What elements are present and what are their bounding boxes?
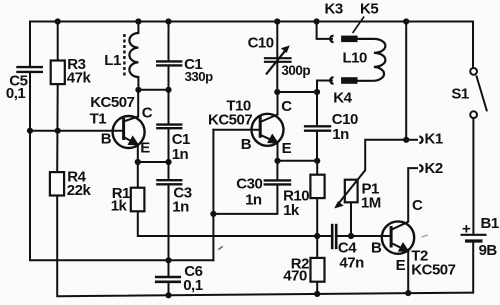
svg-text:E: E [140, 140, 150, 157]
wire T1 emitter down [137, 145, 139, 163]
svg-text:C30: C30 [236, 176, 262, 193]
wire L1 bottom lead [137, 77, 139, 90]
svg-text:0,1: 0,1 [6, 85, 26, 102]
wire K3 drop from top rail [317, 22, 332, 39]
socket K4 [330, 77, 333, 83]
inductor L1 [124, 33, 138, 77]
node T10 base junction [210, 211, 216, 217]
socket K1 [419, 137, 422, 143]
node C1 330p bottom [165, 87, 171, 93]
svg-text:9B: 9B [479, 242, 498, 259]
capacitor C10 1n [304, 126, 331, 130]
wire T1 base [30, 130, 124, 132]
scan speck right of T2 [422, 235, 428, 237]
wire S1 top lead [472, 22, 474, 68]
svg-text:K1: K1 [425, 131, 443, 148]
wire R1 top lead [137, 162, 139, 188]
wire K4 lead to C10 1n [317, 81, 332, 126]
wire L1 top lead [137, 22, 139, 34]
wire battery to bottom rail [472, 243, 474, 293]
resistor R4 [50, 172, 64, 195]
svg-text:1n: 1n [172, 146, 189, 163]
plug on K4 [341, 77, 357, 84]
svg-text:0,1: 0,1 [183, 277, 203, 294]
svg-text:C: C [281, 98, 292, 115]
svg-text:+: + [462, 220, 471, 237]
wire T1 collector [137, 90, 139, 117]
svg-text:1M: 1M [361, 194, 381, 211]
svg-text:C: C [412, 197, 423, 214]
wire C6 top lead [168, 260, 170, 275]
wire C1 1n lower lead [168, 129, 170, 162]
resistor R2 [311, 258, 325, 282]
wire C1 1n upper lead [168, 90, 170, 124]
node P1 bottom [348, 233, 354, 239]
wire R1 bottom to long base wire [138, 211, 331, 236]
socket K3 [330, 36, 333, 42]
inductor L10 [358, 39, 386, 81]
wire T10 base horizontal [213, 129, 260, 131]
transistor T2 [382, 221, 414, 253]
wire K1 drop from top rail [405, 22, 407, 140]
wire left rail lower (C5 to bottom corner) [30, 73, 213, 260]
wire C30 top lead [276, 161, 278, 179]
resistor R1 [131, 188, 145, 212]
node K1 junction [403, 137, 409, 143]
node K4 line / C10 1n [314, 89, 320, 95]
svg-text:T1: T1 [90, 111, 107, 128]
node C10var / K4 line [274, 89, 280, 95]
node C6 bottom rail [165, 292, 171, 298]
node L1 bottom [135, 87, 141, 93]
wire C1 330p top lead [168, 22, 170, 61]
wire R10 top lead [316, 161, 318, 175]
wire T2 collector to K2 [408, 168, 417, 221]
svg-text:B1: B1 [481, 215, 499, 232]
svg-text:B: B [241, 136, 252, 153]
svg-text:E: E [396, 257, 406, 274]
wire left rail upper (to C5) [29, 22, 31, 67]
node top rail / R3 [55, 18, 61, 24]
wire C1 330p bottom lead [168, 67, 170, 90]
capacitor C6 [155, 277, 181, 282]
svg-text:KC507: KC507 [411, 261, 455, 278]
wire T2 emitter down [407, 251, 409, 293]
capacitor C5 [16, 67, 43, 72]
wire T10 base vertical [212, 130, 214, 260]
resistor R3 [51, 61, 65, 85]
capacitor C30 [264, 180, 292, 184]
node base wire R3/R4 [55, 128, 61, 134]
svg-text:22k: 22k [67, 182, 92, 199]
node top rail / K3 [314, 18, 320, 24]
svg-text:B: B [371, 239, 382, 256]
svg-text:47k: 47k [67, 70, 92, 87]
plug K5 [341, 36, 357, 43]
capacitor C1 1n [156, 125, 182, 129]
svg-text:300p: 300p [281, 63, 310, 78]
node top rail / L1 [135, 18, 141, 24]
node base wire left [27, 128, 33, 134]
svg-text:L1: L1 [104, 52, 121, 69]
wire C3 bottom to y260 rail [168, 185, 170, 260]
wire T10 emitter to R10 junction [278, 160, 318, 162]
switch S1 [470, 68, 487, 118]
wire T10 collector [277, 92, 279, 115]
resistor R10 [310, 175, 324, 198]
wire R3 bottom to R4 top [56, 84, 59, 172]
wire top rail [30, 21, 473, 23]
node top rail / K1 [403, 18, 409, 24]
node C1 1n bottom [165, 159, 171, 165]
wire R10 bottom to wire junction [316, 198, 318, 258]
wire R2 bottom lead [316, 282, 318, 294]
svg-text:K2: K2 [425, 160, 443, 177]
wire C10 variable bottom lead [276, 63, 278, 92]
node top rail / C10 [274, 18, 280, 24]
scan speck near T10 base wire [218, 246, 223, 249]
potentiometer P1 [335, 170, 365, 207]
K5 pointer line [353, 17, 365, 34]
wire S1 to battery [472, 118, 474, 233]
transistor T10 [252, 114, 284, 146]
wire R3 top lead [57, 22, 59, 61]
socket K2 [419, 165, 422, 171]
wire C4 right to T2 base [337, 235, 391, 237]
wire T10 emitter down [277, 143, 279, 161]
svg-text:L10: L10 [343, 50, 368, 67]
node top rail / C1 [165, 18, 171, 24]
svg-text:47n: 47n [339, 254, 364, 271]
node T10 emitter [274, 158, 280, 164]
wire C3 top lead [168, 162, 170, 179]
svg-text:470: 470 [283, 268, 307, 285]
wire C10 1n bottom to emitter junction [316, 132, 318, 161]
battery B1 [461, 235, 487, 241]
svg-text:K3: K3 [325, 1, 343, 18]
wire L1 to C1 junction [138, 89, 168, 91]
node R10/R2 wire [314, 233, 320, 239]
svg-text:1k: 1k [111, 197, 128, 214]
wire R4 bottom to bottom rail corner [57, 196, 473, 297]
svg-text:KC507: KC507 [208, 112, 252, 129]
capacitor C3 [156, 180, 182, 184]
svg-text:E: E [282, 140, 292, 157]
svg-text:1n: 1n [172, 199, 189, 216]
capacitor C4 [332, 224, 336, 249]
wire C10var junction to K4 line [277, 91, 317, 93]
svg-text:K5: K5 [360, 1, 378, 18]
capacitor C1 330p [156, 61, 182, 65]
wire C30 bottom corner to base junction [213, 186, 277, 214]
svg-text:C10: C10 [248, 35, 274, 52]
svg-text:1n: 1n [245, 191, 262, 208]
svg-text:1n: 1n [332, 126, 349, 143]
node T2 emitter rail [405, 290, 411, 296]
wire K1 stub [406, 139, 417, 141]
transistor T1 [113, 116, 145, 148]
node C3/C6 rail [165, 257, 171, 263]
svg-text:C: C [142, 104, 153, 121]
wire C6 bottom lead [168, 283, 170, 295]
wire emitter junction to C1 1n bottom [138, 161, 169, 163]
svg-text:S1: S1 [451, 86, 469, 103]
svg-text:KC507: KC507 [90, 94, 134, 111]
node R10 top [314, 158, 320, 164]
svg-text:330p: 330p [185, 69, 214, 84]
wire P1 top lead bent [365, 140, 406, 170]
node R2 bottom rail [314, 291, 320, 297]
variable capacitor C10 300p [264, 46, 292, 74]
node T1 emitter [135, 159, 141, 165]
svg-text:1k: 1k [283, 202, 300, 219]
wire P1 bottom lead [350, 202, 352, 236]
svg-text:B: B [101, 130, 112, 147]
wire C10 variable top lead [276, 22, 278, 58]
svg-text:K4: K4 [333, 90, 352, 107]
